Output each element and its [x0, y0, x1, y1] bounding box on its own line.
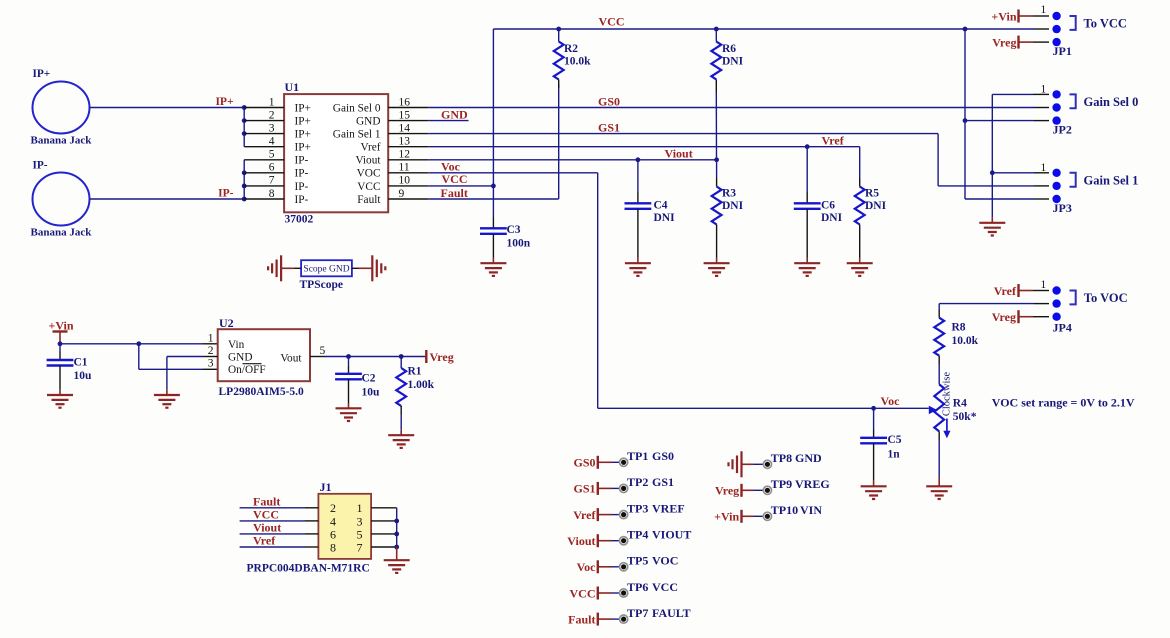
potentiometer R4 body — [934, 384, 944, 431]
wire net IP- from banana jack to U1 — [90, 198, 245, 200]
TPScope right wire — [352, 267, 359, 269]
ground at C2 — [336, 408, 362, 421]
svg-text:4: 4 — [330, 514, 336, 528]
U1 pin 16 stub — [388, 107, 428, 109]
svg-text:TPScope: TPScope — [300, 279, 343, 291]
svg-text:IP+: IP+ — [33, 68, 51, 80]
wire J1 net Fault — [240, 507, 305, 509]
svg-text:C1: C1 — [74, 356, 88, 368]
svg-text:1: 1 — [1041, 162, 1047, 174]
ground at R1 — [388, 435, 414, 448]
connector banana jack BJ2 (IP-) — [33, 173, 90, 226]
svg-text:8: 8 — [269, 188, 275, 200]
resistor R1 — [400, 357, 402, 361]
svg-text:Clockwise: Clockwise — [942, 371, 953, 416]
svg-text:JP3: JP3 — [1053, 201, 1072, 215]
svg-text:JP2: JP2 — [1053, 123, 1072, 137]
svg-text:1: 1 — [1041, 279, 1047, 291]
svg-text:GS1: GS1 — [573, 482, 595, 496]
ground at R4 — [926, 486, 952, 499]
capacitor C1 — [59, 344, 61, 352]
wire net GS0 (U1 pin16 to JP2 pin2) — [428, 107, 1034, 109]
capacitor C3 — [480, 228, 507, 234]
junction IP+ at pin 2 — [242, 118, 247, 123]
ground at JP2/JP3 — [991, 217, 993, 222]
svg-text:FAULT: FAULT — [652, 606, 691, 620]
wire J1 net VCC — [240, 520, 305, 522]
svg-text:10: 10 — [399, 175, 411, 187]
svg-text:10u: 10u — [74, 370, 93, 382]
svg-text:TP8: TP8 — [771, 451, 792, 465]
ground at C1 — [47, 395, 73, 408]
junction Vreg at C2 — [346, 354, 351, 359]
svg-text:+Vin: +Vin — [714, 510, 739, 524]
resistor R8 — [938, 304, 940, 310]
JP3 bracket — [1070, 173, 1076, 187]
J1 pin 7 wire — [371, 546, 397, 548]
svg-text:R2: R2 — [564, 43, 578, 55]
wire TP1 — [612, 461, 620, 463]
resistor R6 — [715, 29, 717, 42]
svg-text:PRPC004DBAN-M71RC: PRPC004DBAN-M71RC — [247, 563, 370, 575]
svg-text:2: 2 — [330, 501, 336, 515]
junction VCC at U1 pin10 — [491, 184, 496, 189]
svg-text:Viout: Viout — [665, 147, 693, 161]
wire TP10 — [754, 515, 764, 517]
svg-text:R6: R6 — [722, 43, 736, 55]
junction VCC rail at R6 — [714, 27, 719, 32]
ground at R3 — [704, 263, 730, 276]
capacitor C4 — [637, 160, 639, 192]
J1 pin 5 wire — [371, 533, 397, 535]
JP2 bracket — [1070, 94, 1076, 108]
wire J1 net Vref — [240, 546, 305, 548]
U1 pin 7 stub — [244, 185, 284, 187]
svg-text:13: 13 — [399, 136, 411, 148]
svg-text:Voc: Voc — [881, 394, 901, 408]
wire J1 ground bus — [396, 508, 398, 547]
junction J1 ground bus pin5 — [394, 532, 399, 537]
svg-text:GND: GND — [441, 108, 468, 122]
svg-text:7: 7 — [269, 175, 275, 187]
svg-text:TP6: TP6 — [627, 580, 648, 594]
junction IP+ at pin 1 — [242, 105, 247, 110]
svg-text:C4: C4 — [654, 200, 668, 212]
svg-text:1: 1 — [1041, 83, 1047, 95]
wire TP6 — [612, 592, 620, 594]
svg-text:R5: R5 — [865, 187, 879, 199]
wire net VCC top rail — [493, 28, 1034, 30]
wire IP+ vertical bus U1 pins 1-4 — [243, 108, 245, 147]
connector JP2 pads — [1052, 90, 1060, 98]
svg-text:Vin: Vin — [228, 339, 245, 351]
svg-text:TP2: TP2 — [627, 475, 648, 489]
svg-text:DNI: DNI — [821, 212, 843, 224]
junction ground bus at JP3 pin1 — [990, 170, 995, 175]
svg-text:C3: C3 — [507, 224, 521, 236]
svg-text:R4: R4 — [953, 397, 967, 409]
svg-text:+Vin: +Vin — [991, 9, 1016, 23]
test point TP1 pad — [620, 458, 628, 466]
wire VCC vertical to JP2 pin3 / JP3 pin3 — [964, 29, 966, 199]
svg-text:C2: C2 — [362, 372, 376, 384]
svg-text:Vref: Vref — [994, 284, 1017, 298]
svg-text:Fault: Fault — [253, 494, 280, 508]
junction J1 ground bus pin7 — [394, 545, 399, 550]
svg-text:TP10: TP10 — [771, 503, 798, 517]
test point TP2 pad — [620, 484, 628, 492]
wire net Vreg (U2 Vout) — [310, 356, 325, 358]
resistor R3 — [716, 160, 718, 178]
svg-text:Banana Jack: Banana Jack — [31, 227, 93, 239]
svg-text:U2: U2 — [219, 316, 234, 330]
svg-text:1: 1 — [1041, 4, 1047, 16]
R4 adjustment arrow — [946, 419, 948, 434]
U1 pin 14 stub — [388, 133, 428, 135]
J1 pin 1 wire — [371, 507, 397, 509]
svg-text:TP3: TP3 — [627, 501, 648, 515]
svg-text:DNI: DNI — [722, 200, 744, 212]
svg-text:R1: R1 — [408, 365, 422, 377]
wire TP8 — [742, 463, 754, 465]
svg-text:37002: 37002 — [285, 214, 314, 226]
wire net Fault (U1 pin9 to R2) — [428, 198, 559, 200]
wire TP4 — [612, 540, 620, 542]
svg-text:R8: R8 — [952, 321, 966, 333]
svg-text:On/OFF: On/OFF — [228, 364, 266, 376]
ground at C3 — [480, 263, 506, 276]
svg-text:1.00k: 1.00k — [408, 379, 435, 391]
wire TP5 — [612, 566, 620, 568]
svg-text:100n: 100n — [507, 238, 531, 250]
svg-text:VREG: VREG — [795, 477, 830, 491]
connector JP4 pads — [1052, 286, 1060, 294]
junction IP- at pin 6 — [242, 170, 247, 175]
svg-text:50k*: 50k* — [953, 411, 977, 423]
wire net GND (U1 pin15) — [428, 120, 468, 122]
capacitor C2 — [348, 357, 350, 366]
svg-text:U1: U1 — [285, 80, 300, 94]
svg-text:IP-: IP- — [218, 188, 234, 200]
svg-text:IP+: IP+ — [295, 142, 311, 154]
capacitor C5 — [873, 408, 875, 429]
potentiometer R4 wiper arrow — [929, 406, 937, 415]
svg-text:6: 6 — [269, 162, 275, 174]
svg-text:1n: 1n — [888, 448, 901, 460]
svg-text:C6: C6 — [821, 200, 835, 212]
wire net Viout (U1 pin12 to C4/R3/R6) — [428, 159, 716, 161]
wire VCC vertical to U1 pin10 and C3 — [492, 29, 494, 217]
svg-text:5: 5 — [357, 527, 363, 541]
svg-text:5: 5 — [320, 345, 326, 357]
svg-text:GS0: GS0 — [652, 449, 674, 463]
svg-text:10u: 10u — [362, 386, 381, 398]
svg-text:Vreg: Vreg — [992, 36, 1016, 50]
connector J1 body — [318, 494, 371, 559]
port Vreg (U2 output) — [425, 350, 427, 363]
svg-text:IP+: IP+ — [215, 96, 233, 108]
svg-text:IP-: IP- — [295, 181, 309, 193]
svg-text:Vref: Vref — [253, 534, 276, 548]
wire IP- vertical bus U1 pins 5-8 — [243, 160, 245, 199]
resistor R2 — [558, 29, 560, 42]
svg-text:+Vin: +Vin — [49, 318, 74, 332]
svg-text:DNI: DNI — [654, 212, 676, 224]
svg-text:Vout: Vout — [280, 352, 302, 364]
wire +Vin to U2 pin1 — [60, 343, 203, 345]
test point TP6 pad — [620, 589, 628, 597]
svg-text:VOC: VOC — [357, 168, 381, 180]
ground TP8 — [729, 451, 742, 477]
ground TPScope right — [372, 255, 385, 281]
svg-text:IP-: IP- — [295, 168, 309, 180]
wire to U2 pin3 (On/OFF) — [138, 344, 140, 370]
svg-text:TP1: TP1 — [627, 449, 648, 463]
svg-text:10.0k: 10.0k — [952, 335, 979, 347]
JP4 bracket — [1070, 291, 1076, 305]
connector JP3 pads — [1052, 169, 1060, 177]
wire net IP+ from banana jack to U1 — [90, 107, 245, 109]
svg-text:Gain Sel 1: Gain Sel 1 — [333, 129, 381, 141]
svg-text:Vref: Vref — [573, 508, 596, 522]
svg-text:Voc: Voc — [577, 560, 597, 574]
svg-text:R3: R3 — [722, 187, 736, 199]
svg-text:11: 11 — [399, 162, 410, 174]
svg-text:GND: GND — [795, 451, 822, 465]
svg-text:IP+: IP+ — [295, 116, 311, 128]
svg-text:9: 9 — [399, 188, 405, 200]
svg-text:VCC: VCC — [442, 172, 468, 186]
svg-text:TP5: TP5 — [627, 554, 648, 568]
svg-text:Gain Sel 1: Gain Sel 1 — [1084, 174, 1139, 188]
U2 pin2 wire to ground — [203, 356, 218, 358]
wire net VCC (U1 pin10) — [428, 185, 493, 187]
capacitor C6 — [806, 147, 808, 192]
svg-text:Scope GND: Scope GND — [303, 265, 349, 275]
svg-text:JP4: JP4 — [1053, 321, 1072, 335]
test point TP5 pad — [620, 563, 628, 571]
svg-text:VCC: VCC — [253, 508, 279, 522]
U1 pin 3 stub — [244, 133, 284, 135]
svg-text:1: 1 — [208, 333, 214, 345]
svg-text:IP-: IP- — [33, 160, 48, 172]
svg-text:VCC: VCC — [599, 14, 625, 28]
J1 pin 3 wire — [371, 520, 397, 522]
svg-text:VOC: VOC — [652, 554, 678, 568]
ground at R5 — [847, 263, 873, 276]
svg-text:8: 8 — [330, 540, 336, 554]
junction U2 pin3 branch — [136, 341, 141, 346]
svg-text:Gain Sel 0: Gain Sel 0 — [333, 102, 381, 114]
svg-text:GND: GND — [228, 351, 252, 363]
connector banana jack BJ1 (IP+) — [33, 82, 90, 134]
test point TP9 pad — [763, 486, 771, 494]
test point TP8 pad — [763, 460, 771, 468]
svg-text:Viout: Viout — [567, 534, 595, 548]
svg-text:3: 3 — [357, 514, 363, 528]
svg-text:Vref: Vref — [360, 142, 380, 154]
svg-text:GS0: GS0 — [598, 94, 620, 108]
svg-text:Fault: Fault — [441, 186, 468, 200]
svg-text:VCC: VCC — [652, 580, 678, 594]
junction Viout at R3/R6 — [714, 157, 719, 162]
U1 pin 5 stub — [244, 159, 284, 161]
svg-text:VOC set range = 0V to 2.1V: VOC set range = 0V to 2.1V — [992, 396, 1135, 410]
wire TP9 — [754, 489, 764, 491]
svg-text:Banana Jack: Banana Jack — [31, 135, 93, 147]
test point TPScope body — [301, 260, 352, 276]
svg-text:4: 4 — [269, 136, 275, 148]
junction Voc at C5 — [871, 406, 876, 411]
U1 pin 2 stub — [244, 120, 284, 122]
svg-text:3: 3 — [208, 358, 214, 370]
svg-text:TP7: TP7 — [627, 606, 648, 620]
svg-text:Fault: Fault — [568, 612, 595, 626]
svg-text:10.0k: 10.0k — [564, 55, 591, 67]
wire JP4 pin2 to R8 — [1034, 303, 1049, 305]
JP1 bracket — [1070, 16, 1076, 30]
svg-text:7: 7 — [357, 540, 363, 554]
svg-text:To VCC: To VCC — [1084, 16, 1127, 30]
svg-text:GS1: GS1 — [598, 121, 620, 135]
svg-text:Fault: Fault — [357, 194, 381, 206]
wire TP3 — [612, 514, 620, 516]
ground at J1 — [396, 547, 398, 560]
ground at C5 — [861, 486, 887, 499]
svg-text:6: 6 — [330, 527, 336, 541]
svg-text:TP4: TP4 — [627, 528, 648, 542]
wire JP2 pin1 to ground bus — [991, 94, 993, 217]
U1 pin 13 stub — [388, 146, 428, 148]
svg-text:Vreg: Vreg — [715, 484, 739, 498]
svg-text:GS0: GS0 — [573, 456, 595, 470]
svg-text:VIOUT: VIOUT — [652, 528, 691, 542]
IC U2 body (LP2980) — [218, 329, 310, 381]
svg-text:JP1: JP1 — [1053, 44, 1072, 58]
U1 pin 4 stub — [244, 146, 284, 148]
svg-text:To VOC: To VOC — [1084, 291, 1128, 305]
junction IP+ at pin 3 — [242, 131, 247, 136]
test point TP7 pad — [620, 615, 628, 623]
svg-text:IP-: IP- — [295, 194, 309, 206]
U1 pin 1 stub — [244, 107, 284, 109]
U1 pin 12 stub — [388, 159, 428, 161]
svg-text:Viout: Viout — [253, 521, 281, 535]
ground at U2 pin2 — [154, 395, 180, 408]
U1 pin 8 stub — [244, 198, 284, 200]
test point TP4 pad — [620, 537, 628, 545]
test point TP3 pad — [620, 510, 628, 518]
svg-text:IP+: IP+ — [295, 102, 311, 114]
svg-text:5: 5 — [269, 149, 275, 161]
wire JP3 pin1 to ground bus — [992, 172, 1034, 174]
wire net GS1 (U1 pin14 to JP3 pin2) — [428, 133, 938, 135]
svg-text:Vreg: Vreg — [430, 350, 454, 364]
junction J1 ground bus pin3 — [394, 519, 399, 524]
svg-text:IP+: IP+ — [295, 129, 311, 141]
connector JP1 pads — [1052, 12, 1060, 20]
wire J1 net Viout — [240, 533, 305, 535]
wire VCC to JP2 pin3 — [965, 120, 1034, 122]
svg-text:C5: C5 — [888, 434, 902, 446]
svg-text:2: 2 — [208, 345, 214, 357]
svg-text:VCC: VCC — [570, 586, 596, 600]
svg-text:2: 2 — [269, 109, 275, 121]
svg-text:VREF: VREF — [652, 501, 685, 515]
svg-text:15: 15 — [399, 109, 411, 121]
U1 pin 11 stub — [388, 172, 428, 174]
svg-text:IP-: IP- — [295, 155, 309, 167]
svg-text:DNI: DNI — [865, 200, 887, 212]
junction Viout at C4 — [636, 157, 641, 162]
svg-text:TP9: TP9 — [771, 477, 792, 491]
svg-text:GND: GND — [356, 116, 380, 128]
svg-text:J1: J1 — [320, 480, 332, 494]
svg-text:1: 1 — [269, 96, 275, 108]
U1 pin 9 stub — [388, 198, 428, 200]
svg-text:DNI: DNI — [722, 55, 744, 67]
junction +Vin at C1 — [58, 341, 63, 346]
svg-text:Viout: Viout — [355, 155, 381, 167]
svg-text:12: 12 — [399, 149, 411, 161]
svg-text:3: 3 — [269, 122, 275, 134]
svg-text:Vreg: Vreg — [992, 310, 1016, 324]
junction Vref at C6 — [805, 144, 810, 149]
U1 pin 6 stub — [244, 172, 284, 174]
U1 pin 10 stub — [388, 185, 428, 187]
junction VCC at JP2 pin3 — [963, 118, 968, 123]
test point TP10 pad — [763, 512, 771, 520]
IC U1 body (37002) — [284, 94, 388, 212]
junction VCC rail at R2 — [556, 27, 561, 32]
svg-text:VIN: VIN — [800, 503, 822, 517]
wire net Voc (U1 pin11 to R4 wiper) — [428, 172, 598, 174]
resistor R5 — [859, 179, 861, 187]
U1 pin 15 stub — [388, 120, 428, 122]
svg-text:14: 14 — [399, 122, 411, 134]
svg-text:Gain Sel 0: Gain Sel 0 — [1084, 95, 1139, 109]
ground at C4 — [625, 263, 651, 276]
svg-text:1: 1 — [357, 501, 363, 515]
TPScope left wire — [295, 267, 302, 269]
junction VCC rail at JP branch — [963, 27, 968, 32]
svg-text:GS1: GS1 — [652, 475, 674, 489]
wire net Vref (U1 pin13 to C6/R5) — [428, 146, 860, 148]
svg-text:Vref: Vref — [822, 133, 845, 147]
svg-text:16: 16 — [399, 96, 411, 108]
svg-text:LP2980AIM5-5.0: LP2980AIM5-5.0 — [219, 386, 305, 398]
svg-text:VCC: VCC — [357, 181, 380, 193]
wire TP2 — [612, 487, 620, 489]
ground TPScope left — [268, 255, 281, 281]
wire TP7 — [612, 618, 620, 620]
junction IP- at pin 7 — [242, 184, 247, 189]
junction Vreg at R1 — [399, 354, 404, 359]
junction IP- at pin 8 — [242, 197, 247, 202]
ground at C6 — [794, 263, 820, 276]
